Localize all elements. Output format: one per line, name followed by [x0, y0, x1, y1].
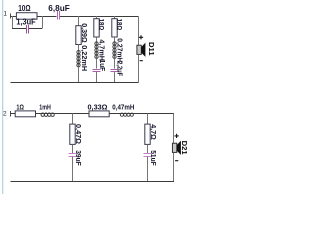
wire bottom rail top circuit	[10, 82, 138, 84]
wire branch3 top stub	[114, 16, 116, 19]
svg-text:1Ω: 1Ω	[16, 105, 24, 112]
resistor 18R branch3	[112, 19, 122, 37]
svg-text:4,7mH: 4,7mH	[97, 39, 104, 61]
wire parallel loop	[12, 16, 42, 29]
svg-text:0,47Ω: 0,47Ω	[74, 124, 81, 144]
svg-text:D21: D21	[180, 141, 187, 155]
svg-text:D11: D11	[147, 42, 154, 56]
svg-text:18Ω: 18Ω	[97, 19, 104, 31]
svg-text:51uF: 51uF	[149, 150, 156, 166]
svg-text:18Ω: 18Ω	[115, 19, 122, 31]
svg-text:1: 1	[3, 11, 7, 18]
wire top rail right	[59, 16, 138, 18]
resistor 10R	[16, 3, 37, 19]
wire top rail left	[10, 16, 56, 18]
svg-text:1uF: 1uF	[98, 60, 105, 72]
wire bottom rail bottom circuit	[10, 181, 174, 183]
wire speaker D11 drop	[138, 17, 140, 46]
svg-text:1mH: 1mH	[39, 105, 51, 112]
svg-text:10Ω: 10Ω	[18, 3, 31, 13]
wire branch1 top stub	[78, 16, 80, 26]
inductor 0.22mH	[77, 45, 87, 71]
wire branch2 bottom	[96, 72, 98, 83]
wire speaker D11 bottom	[138, 54, 140, 82]
inductor 0.27mH	[113, 38, 122, 62]
wire branch3 mid	[114, 37, 116, 42]
capacitor 1.3uF	[16, 17, 35, 34]
wire shuntA bottom	[72, 156, 74, 181]
node 2 (input terminal 2)	[3, 111, 11, 118]
inductor 0.47mH	[112, 105, 134, 117]
svg-text:0,47mH: 0,47mH	[112, 105, 134, 112]
svg-text:1,3uF: 1,3uF	[16, 17, 35, 27]
capacitor 39uF	[69, 150, 82, 166]
svg-text:0,33Ω: 0,33Ω	[88, 105, 108, 112]
capacitor 51uF	[144, 150, 157, 166]
wire branch2 mid	[96, 37, 98, 42]
svg-text:0,22mH: 0,22mH	[80, 45, 87, 71]
wire branch1 bottom	[78, 67, 80, 83]
wire speaker D21 bottom	[173, 152, 175, 181]
svg-text:0,27mH: 0,27mH	[115, 38, 122, 62]
resistor 0.39R	[76, 23, 87, 44]
wire branch3 lower	[114, 58, 116, 68]
speaker D11	[137, 35, 154, 61]
wire mid rail	[10, 113, 174, 115]
svg-text:2: 2	[3, 111, 7, 118]
resistor 0.47R	[70, 124, 81, 144]
inductor 1mH	[39, 105, 54, 117]
svg-text:2,2uF: 2,2uF	[115, 61, 122, 77]
resistor 1R	[15, 105, 35, 117]
resistor 18R branch2	[94, 19, 104, 37]
capacitor 2.2uF	[111, 61, 123, 77]
wire shuntB top	[147, 114, 149, 125]
wire branch1 mid	[78, 45, 80, 51]
wire branch2 top stub	[96, 16, 98, 19]
wire shuntB bottom	[147, 156, 149, 181]
wire speaker D21 drop	[173, 114, 175, 144]
inductor 4.7mH	[95, 39, 104, 61]
wire shuntA mid	[72, 144, 74, 152]
svg-text:4,7Ω: 4,7Ω	[149, 124, 156, 140]
capacitor 6.8uF	[48, 3, 70, 20]
resistor 0.33R	[88, 105, 110, 117]
node 1 (input terminal 1)	[3, 11, 10, 19]
wire shuntB mid	[147, 144, 149, 152]
wire branch3 bottom	[114, 72, 116, 83]
svg-text:6,8uF: 6,8uF	[48, 3, 70, 13]
svg-text:0,39Ω: 0,39Ω	[80, 23, 87, 43]
capacitor 1uF	[93, 60, 106, 72]
resistor 4.7R	[145, 124, 156, 144]
svg-text:39uF: 39uF	[74, 150, 81, 166]
wire shuntA top	[72, 114, 74, 125]
speaker D21	[172, 134, 187, 161]
wire branch2 lower	[96, 58, 98, 68]
